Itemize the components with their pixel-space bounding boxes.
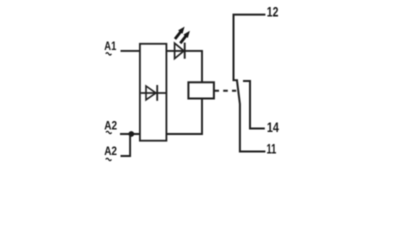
node A2 label (lower): [104, 145, 117, 161]
wire A1 to input block: [121, 50, 141, 52]
wire LED corner down to relay coil: [201, 51, 203, 82]
wire lower A2 up to junction: [121, 134, 131, 156]
LED emission arrow 2: [180, 31, 190, 43]
svg-text:14: 14: [267, 120, 279, 135]
wire coil bottom to return: [166, 99, 202, 135]
wire A2 to input block: [120, 133, 140, 135]
wire block to LED: [166, 50, 203, 52]
wire terminal 12 down to fixed contact: [234, 15, 266, 80]
fixed contact 14 hook and wire to terminal 14: [243, 81, 265, 129]
node A1 label: [104, 40, 116, 55]
LED emission arrow 1: [175, 27, 185, 39]
svg-text:11: 11: [267, 141, 277, 156]
svg-text:A1: A1: [104, 40, 116, 53]
dashed actuator link coil to contact: [214, 90, 236, 92]
LED cathode bar: [184, 43, 186, 59]
diode D1 triangle: [146, 86, 156, 100]
fixed contact 12 tick: [233, 79, 239, 81]
svg-text:A2: A2: [104, 120, 117, 133]
relay coil K1: [188, 82, 214, 98]
diode D1 inside block: horizontal line: [141, 92, 166, 94]
node A2 label (upper): [104, 120, 117, 134]
svg-text:A2: A2: [104, 145, 117, 158]
svg-text:12: 12: [267, 4, 279, 19]
movable contact arm and common lead to 11: [237, 81, 265, 152]
junction dot: [128, 131, 134, 137]
LED triangle: [175, 43, 184, 58]
input block rectangle: [140, 44, 167, 141]
diode D1 cathode bar: [156, 85, 158, 101]
